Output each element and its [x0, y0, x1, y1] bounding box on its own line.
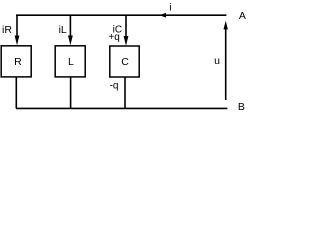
wire L branch upper [69, 15, 71, 36]
svg-text:+q: +q [108, 32, 119, 43]
wire C branch upper [125, 15, 127, 37]
svg-text:u: u [214, 55, 220, 67]
current arrow i head (points left on top bus) [159, 13, 166, 18]
svg-text:iL: iL [59, 24, 67, 36]
voltage arrow u (points up toward A) [225, 29, 227, 100]
resistor R [1, 46, 31, 77]
wire C branch lower [124, 77, 126, 109]
current arrow iR head [15, 36, 20, 46]
inductor L [55, 46, 85, 77]
svg-text:L: L [68, 56, 74, 68]
current arrow iC head [124, 36, 129, 46]
capacitor C [110, 46, 139, 77]
svg-text:iR: iR [2, 24, 12, 36]
wire R branch lower [15, 77, 17, 109]
current arrow iL head [68, 36, 73, 46]
svg-text:-q: -q [110, 80, 119, 91]
wire R branch upper [16, 15, 18, 36]
svg-text:A: A [239, 10, 246, 22]
svg-text:B: B [238, 101, 245, 113]
svg-text:R: R [14, 56, 22, 68]
svg-text:C: C [121, 56, 129, 68]
wire L branch lower [70, 77, 72, 109]
svg-text:i: i [169, 2, 171, 14]
wire bottom bus B [16, 107, 227, 109]
wire top bus A [16, 14, 226, 16]
